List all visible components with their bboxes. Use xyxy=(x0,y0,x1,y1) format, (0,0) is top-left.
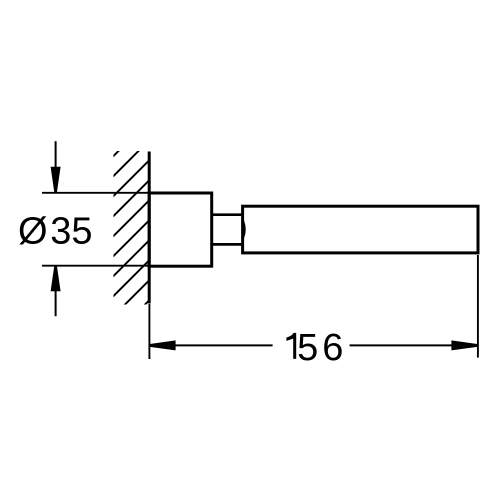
length dim line, left segment with arrow xyxy=(149,340,273,350)
extension line, right of length dim xyxy=(477,255,479,358)
svg-text:35: 35 xyxy=(50,211,92,253)
upper arrow of diameter dim xyxy=(51,141,61,192)
svg-text:Ø: Ø xyxy=(18,211,48,253)
label: length 156 xyxy=(286,327,343,369)
holder bar (long cylinder, side view) xyxy=(243,206,478,253)
extension line, top of diameter dim xyxy=(42,192,149,194)
svg-text:6: 6 xyxy=(322,327,343,369)
extension line, bottom of diameter dim xyxy=(42,265,149,267)
svg-text:5: 5 xyxy=(297,327,318,369)
wall hatching xyxy=(101,99,171,349)
neck bottom line xyxy=(212,243,243,246)
arc at bar left end (neck fillet silhouette) xyxy=(243,221,245,238)
wall line xyxy=(148,152,151,304)
extension line, left of length dim xyxy=(148,304,150,359)
lower arrow of diameter dim xyxy=(51,266,61,317)
length dim line, right segment with arrow xyxy=(350,340,478,350)
base cylinder (wall flange, side view) xyxy=(149,193,212,266)
neck top line xyxy=(212,213,243,216)
